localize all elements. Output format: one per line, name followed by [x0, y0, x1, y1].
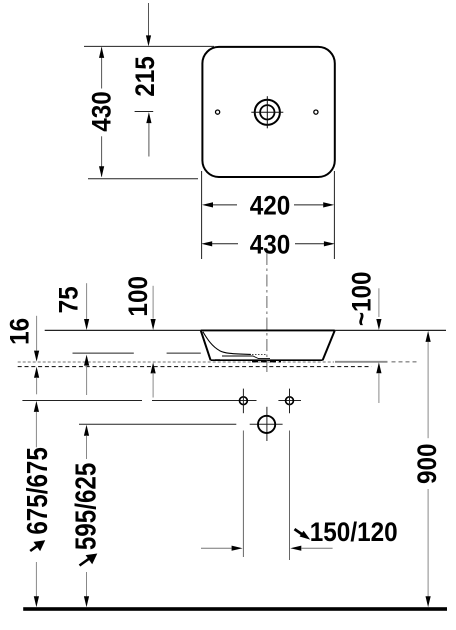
svg-text:~100: ~100 — [347, 271, 376, 326]
centerline — [266, 253, 268, 372]
supply connection level line (675) — [22, 400, 142, 402]
countertop top surface (fine dashed) — [18, 361, 334, 363]
fixing hole right — [314, 110, 318, 114]
dimension 215 vertical (plan) — [131, 3, 160, 157]
countertop bottom surface (dashed) — [18, 366, 372, 368]
svg-text:215: 215 — [131, 56, 160, 97]
basin base — [211, 359, 323, 361]
supply connection right circle — [286, 397, 294, 405]
hidden drain dashes — [252, 360, 281, 362]
svg-text:430: 430 — [250, 230, 291, 259]
svg-text:595/625: 595/625 — [69, 463, 101, 551]
dimension 430 vertical (plan) — [87, 47, 116, 177]
dimension 430 horizontal — [201, 230, 335, 259]
dimension 16 (counter thickness) — [5, 316, 39, 395]
dimension 595/625 — [69, 425, 101, 607]
basin left wall — [201, 331, 211, 361]
dimension 100 (left) — [124, 276, 156, 397]
drain crosshair — [266, 96, 268, 128]
svg-text:16: 16 — [5, 318, 34, 345]
extension line bottom edge — [88, 178, 198, 180]
rim level line — [45, 329, 446, 331]
extension line left (width dims) — [201, 171, 203, 259]
basin elevation rim — [201, 329, 335, 331]
basin right wall — [323, 331, 335, 361]
fixing hole left — [216, 110, 220, 114]
extension line right (width dims) — [333, 171, 335, 259]
bowl inner ledge — [222, 356, 270, 359]
svg-text:150/120: 150/120 — [310, 518, 398, 547]
basin outline (plan, rounded square) — [202, 47, 334, 177]
supply connection left circle — [240, 397, 248, 405]
dimension 420 horizontal — [202, 191, 334, 220]
extension line top edge — [84, 45, 214, 47]
dimension 900 (right) — [413, 331, 442, 607]
hole reference verticals — [242, 431, 244, 558]
floor line — [23, 607, 447, 611]
waste connection level line (595/625) — [79, 423, 236, 425]
drain outer circle — [255, 100, 280, 125]
dimension 150/120 — [201, 518, 398, 551]
waste connection circle — [258, 416, 275, 433]
dimension 675/675 — [21, 401, 53, 607]
basin inner bowl curve — [203, 332, 251, 355]
svg-text:900: 900 — [413, 443, 442, 484]
svg-text:675/675: 675/675 — [21, 447, 53, 535]
dimension ~100 (right) — [347, 271, 381, 403]
inner floor (75) reference line — [73, 352, 134, 354]
dimension 75 — [54, 283, 89, 395]
drain inner circle — [260, 105, 274, 119]
svg-text:75: 75 — [54, 286, 83, 313]
svg-text:420: 420 — [250, 191, 291, 220]
wall section mark — [215, 359, 220, 361]
svg-text:430: 430 — [87, 91, 116, 132]
svg-text:100: 100 — [124, 276, 153, 317]
